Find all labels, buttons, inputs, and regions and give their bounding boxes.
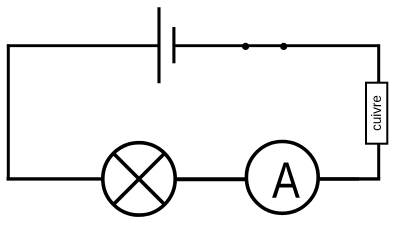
svg-text:cuivre: cuivre <box>369 95 384 131</box>
switch S1: left terminal dot <box>242 43 249 50</box>
lamp L1: bulb circle <box>103 143 175 215</box>
battery B1: short plate (negative) <box>172 27 175 63</box>
wire: bottom rail <box>7 177 381 180</box>
ammeter M1: meter circle <box>246 142 318 214</box>
wire: ammeter-to-corner segment <box>315 177 359 181</box>
wire: top rail left segment (top-left corner to battery) <box>8 44 159 46</box>
switch S1: right terminal dot <box>280 43 287 50</box>
wire: left rail <box>7 44 10 179</box>
battery B1: long plate (positive) <box>157 7 160 83</box>
resistor R1 (cuivre): body <box>366 83 387 144</box>
lamp L1: cross stroke 1 <box>114 154 165 205</box>
wire: lamp-to-ammeter segment <box>170 178 250 181</box>
wire: top rail right segment (battery to top-right corner) <box>174 44 379 47</box>
svg-text:A: A <box>272 152 300 209</box>
wire: right rail <box>377 44 380 179</box>
lamp L1: cross stroke 2 <box>114 154 165 205</box>
